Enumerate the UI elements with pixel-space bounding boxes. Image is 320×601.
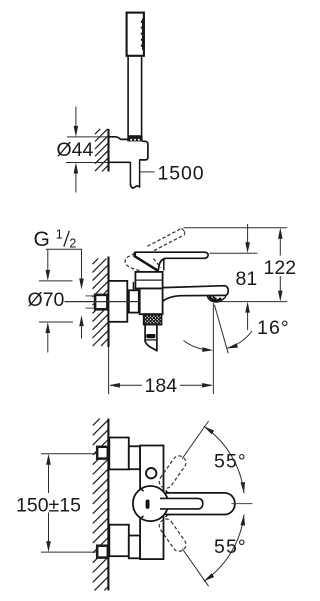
wall holder bracket — [109, 137, 128, 140]
shower hose outlet — [145, 325, 157, 351]
lower union square — [97, 546, 108, 558]
lever hub circle — [133, 486, 168, 521]
svg-text:122: 122 — [264, 257, 297, 279]
dimension 150±15 — [41, 453, 97, 455]
cartridge collar — [135, 272, 162, 289]
svg-text:16°: 16° — [257, 317, 290, 339]
lever inner face — [160, 498, 203, 509]
spray face strip — [142, 18, 145, 49]
shower handle — [127, 57, 129, 136]
dimension 184 (depth) — [110, 384, 142, 386]
dimension 122 (height) — [184, 227, 288, 229]
dimension 81 (lever height) — [210, 252, 258, 254]
escutcheon flange Ø70 — [109, 281, 128, 322]
wall hatch (top view) — [95, 129, 108, 172]
lever centerline — [232, 503, 253, 505]
wall surface line (side view) — [107, 257, 109, 348]
upper connector — [129, 446, 140, 469]
dashed lever ghost +55 — [157, 453, 189, 490]
lever (solid, closed position) — [135, 252, 208, 271]
svg-text:55°: 55° — [214, 451, 247, 473]
hand shower head — [127, 13, 144, 56]
upper escutcheon — [109, 438, 129, 470]
svg-text:184: 184 — [145, 375, 178, 397]
concealed union (G 1/2) in wall — [86, 295, 94, 297]
svg-text:1500: 1500 — [158, 163, 205, 185]
screw hole — [146, 468, 156, 478]
hub mark — [146, 500, 150, 509]
svg-text:Ø44: Ø44 — [57, 139, 94, 161]
dimension Ø44 (holder) — [67, 136, 108, 138]
dimension 16 degrees (spout angle) — [212, 303, 214, 394]
svg-text:1: 1 — [56, 228, 63, 242]
svg-text:55°: 55° — [214, 536, 247, 558]
lower escutcheon — [109, 525, 129, 557]
dimension 55 deg (bottom arc) — [204, 514, 244, 581]
G1/2 leader to union — [81, 249, 83, 279]
shower hose — [129, 162, 131, 185]
55 degree rays — [182, 421, 208, 459]
wall extension line down to 184 dimension — [108, 347, 110, 394]
lower connector — [129, 536, 140, 559]
dimension Ø70 (flange) — [39, 280, 73, 282]
lever (front view) — [158, 493, 235, 515]
svg-text:81: 81 — [236, 268, 258, 290]
spout — [163, 286, 228, 296]
upper union square — [97, 447, 108, 459]
lever skirt far edge — [163, 258, 165, 271]
aerator at spout tip — [207, 296, 226, 303]
dashed lever ghost -55 — [157, 517, 189, 554]
svg-text:150±15: 150±15 — [16, 494, 81, 516]
wall surface line (front view) — [107, 419, 109, 591]
hose nut (dark band) — [127, 135, 142, 141]
svg-text:Ø70: Ø70 — [28, 289, 65, 311]
body step detail — [132, 282, 134, 290]
mixer body (front) — [140, 446, 163, 560]
dimension 1500 (hose length) — [140, 171, 155, 173]
centerline of connection — [65, 301, 149, 303]
svg-text:2: 2 — [69, 237, 76, 251]
svg-text:G: G — [34, 228, 50, 251]
dimension 55 deg (top arc) — [204, 426, 244, 493]
lever (dashed, open position) — [125, 229, 185, 271]
union nut — [129, 290, 139, 312]
wall surface line (top view) — [107, 129, 109, 172]
mixer body — [140, 289, 163, 315]
hub fillet joins — [140, 488, 170, 520]
wall hatch (side view) — [93, 259, 109, 347]
wall hatch (front view) — [93, 419, 108, 591]
